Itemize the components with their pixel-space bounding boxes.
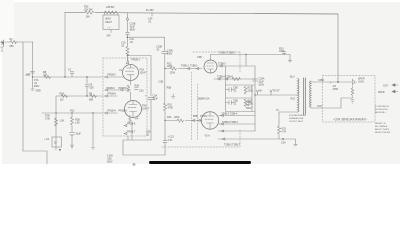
svg-text:OUTPUT JACK: OUTPUT JACK <box>289 120 304 123</box>
jack shunt resistor R15 <box>351 86 354 98</box>
svg-text:525V: 525V <box>259 84 265 87</box>
capacitor C2 (above row A at x=72) <box>70 72 74 78</box>
svg-text:SPKR: SPKR <box>378 91 385 94</box>
svg-text:C2A: C2A <box>281 142 286 145</box>
resistor R4 (row B right) <box>90 95 97 98</box>
svg-text:C2B: C2B <box>159 81 164 84</box>
svg-text:1.5K: 1.5K <box>75 122 80 125</box>
wire V2B plate y=115.5 <box>219 115 255 117</box>
svg-text:PR1B-3: PR1B-3 <box>107 87 116 90</box>
node plate V1A <box>127 55 128 56</box>
pin arrow row A into box <box>105 76 124 78</box>
svg-text:PR1B-2: PR1B-2 <box>108 74 117 77</box>
capacitor C5 (x=127.5) <box>126 32 130 44</box>
capacitor C7 (x=164.5) <box>162 51 168 53</box>
svg-text:RESIST. OF: RESIST. OF <box>375 123 387 125</box>
svg-text:R13: R13 <box>291 98 296 101</box>
wire vert x=151 <box>150 56 152 141</box>
resistor R7 (rail series 85-95) <box>85 11 94 14</box>
svg-text:4.7K: 4.7K <box>168 139 173 142</box>
connector arrow B+ (x=257.5) <box>256 90 258 95</box>
svg-text:T25B-2 T25B-7: T25B-2 T25B-7 <box>224 144 240 147</box>
wire vert x=246 <box>245 55 247 67</box>
wire V2A lower y=79 <box>214 78 255 80</box>
arrow connector OUTPUT <box>392 84 398 87</box>
svg-text:GRD: GRD <box>36 90 42 93</box>
svg-text:24V: 24V <box>107 35 112 38</box>
svg-text:PR2B-7: PR2B-7 <box>127 131 136 134</box>
wire vertical x=93 row C down <box>92 113 94 147</box>
resistor R2 (row A series) <box>44 76 51 79</box>
svg-text:1M: 1M <box>60 99 63 102</box>
ground (jack) <box>351 100 354 103</box>
capacitor C8 (x=165 low) <box>163 121 167 156</box>
wire vertical drop x=23 (ground bus) <box>22 42 24 151</box>
wire vert x=255 <box>254 66 256 131</box>
capacitor C11 <box>226 101 235 105</box>
svg-text:600V: 600V <box>167 53 173 56</box>
svg-text:200V: 200V <box>34 85 40 88</box>
wire secondary top y=82 <box>311 81 352 83</box>
svg-text:1.5K: 1.5K <box>60 120 65 123</box>
pin arrows into box2 y=120.5 <box>192 119 200 121</box>
svg-text:B5B: B5B <box>193 115 198 118</box>
svg-text:25uF: 25uF <box>76 133 82 136</box>
cathode RC V1B <box>129 116 138 141</box>
coupling chain x=164.5 <box>164 37 166 103</box>
svg-text:C25B: C25B <box>318 79 324 82</box>
tube V2B triode <box>201 112 218 129</box>
svg-text:.005: .005 <box>89 87 94 90</box>
connector arrow OT (x=271) <box>270 90 272 95</box>
svg-text:A25 5W: A25 5W <box>106 6 115 9</box>
capacitor C1 on input drop <box>31 71 35 73</box>
wire/cap divider x=87 rows A-B <box>85 77 89 96</box>
pin arrow y=66 <box>220 65 223 67</box>
dashed box V1 socket <box>103 58 147 136</box>
svg-text:B+ 360: B+ 360 <box>146 9 154 12</box>
node x=128 upper junction <box>127 36 129 38</box>
wire vertical drop x=32.5 <box>32 42 34 77</box>
svg-text:T25B-3: T25B-3 <box>218 63 226 66</box>
svg-text:ALL ITEMS A: ALL ITEMS A <box>375 125 388 128</box>
PI ladder network <box>226 85 256 112</box>
tube V1B triode <box>125 101 142 118</box>
resistor R11 grid stopper 2 <box>177 119 184 122</box>
ground (input network) <box>31 77 34 91</box>
connector arrow (x=127.5 up) <box>126 13 129 33</box>
svg-text:ABOUT THIS N: ABOUT THIS N <box>375 128 390 131</box>
pin arrows V2B right <box>221 114 224 132</box>
svg-text:C7B: C7B <box>45 118 50 121</box>
svg-text:10K: 10K <box>43 74 48 77</box>
svg-text:SPEAKER USE: SPEAKER USE <box>289 117 304 120</box>
cathode RC V1A <box>127 81 138 100</box>
black censor bar <box>151 161 250 164</box>
rectifier box BR1 <box>103 15 119 30</box>
svg-text:T25B-1: T25B-1 <box>190 65 198 68</box>
svg-text:P25B-1: P25B-1 <box>181 65 189 68</box>
svg-text:OHM: OHM <box>333 88 339 91</box>
svg-text:R5A: R5A <box>60 93 65 96</box>
svg-text:R5B: R5B <box>167 87 172 90</box>
svg-text:12AX7: 12AX7 <box>140 72 148 75</box>
wire grid V2B y=120.5 <box>165 120 202 122</box>
svg-text:R16: R16 <box>167 116 172 119</box>
wire OT primary bottom y=112 <box>279 111 297 113</box>
wire V2B y=131 <box>218 130 255 132</box>
svg-text:T25B-2 T25B-3: T25B-2 T25B-3 <box>222 121 238 124</box>
svg-text:PR2B-5: PR2B-5 <box>127 123 136 126</box>
svg-text:+ C3: + C3 <box>44 138 50 141</box>
svg-text:B5B/P1.5A: B5B/P1.5A <box>198 98 210 101</box>
svg-text:T25B-4 T25B-6: T25B-4 T25B-6 <box>217 76 233 79</box>
svg-text:OUT: OUT <box>383 85 389 88</box>
wire secondary bottom y=108 <box>311 107 341 109</box>
wire input to grid network <box>5 41 34 43</box>
wire vertical x=65 from B+ rail <box>64 13 66 78</box>
svg-text:IN USE WITH: IN USE WITH <box>375 109 388 111</box>
ground (x=173 small) <box>172 94 175 98</box>
resistor R5 (cathode, x=56) <box>55 118 58 126</box>
svg-text:450V: 450V <box>130 29 136 32</box>
wire y=37.2 to coupling cap <box>128 36 165 38</box>
ground (x=295.5) <box>294 144 297 146</box>
svg-text:68K: 68K <box>89 99 94 102</box>
node B+ OT <box>254 94 255 95</box>
wire V2B y=124 <box>219 123 255 125</box>
capacitor C3 box (x=52-61) <box>52 137 62 147</box>
capacitor C5A electrolytic on x=151 <box>148 97 155 102</box>
svg-text:100K: 100K <box>279 50 285 53</box>
wire B+ rail y=12.5 <box>65 12 338 14</box>
wire grid V2A y=68.5 <box>165 68 202 70</box>
svg-text:220K: 220K <box>174 116 180 119</box>
svg-text:-ON BREAKAWAY-: -ON BREAKAWAY- <box>333 117 368 122</box>
wire V2A right y=66 <box>217 65 255 67</box>
svg-text:R3A: R3A <box>135 85 140 88</box>
resistor R8 plate V1A <box>126 44 129 56</box>
resistor R14 NFB (x=279) <box>278 112 281 139</box>
resistor R12 <box>244 87 247 94</box>
capacitor C10 <box>226 88 235 92</box>
node cathode ground <box>59 149 61 151</box>
arrow connector GND <box>392 90 398 93</box>
svg-text:ANY AT ALL: ANY AT ALL <box>375 111 387 114</box>
svg-text:4.7K: 4.7K <box>282 131 287 134</box>
wire vertical x=56 rows B-C <box>55 96 57 150</box>
resistor R10 (x=165 mid) <box>164 103 167 121</box>
wire plate V2A y=54.5 <box>211 55 291 61</box>
svg-text:IF GROUND IS: IF GROUND IS <box>375 106 389 108</box>
svg-text:JACK: JACK <box>358 81 364 84</box>
node NFB junction <box>282 138 284 140</box>
wire ground bus bottom <box>23 151 47 164</box>
svg-text:220K: 220K <box>248 90 254 93</box>
ground (cathode x=72) <box>70 145 74 148</box>
svg-text:PR1B-1: PR1B-1 <box>132 59 141 62</box>
node grid wire V2A <box>164 68 165 69</box>
pin arrows into box2 y=68.5 <box>187 67 199 69</box>
wire V2B cathode y=139 <box>218 139 296 144</box>
svg-text:68K: 68K <box>10 45 15 48</box>
svg-text:470K: 470K <box>168 107 174 110</box>
wire row C y=113 <box>42 112 103 114</box>
pin arrow row C into box <box>105 112 118 114</box>
svg-text:20uF: 20uF <box>153 98 159 101</box>
dashed breakaway box <box>323 75 376 122</box>
svg-text:®: ® <box>133 162 136 167</box>
resistor R7B (rail series above box) <box>105 11 117 14</box>
resistor R13 <box>244 99 247 106</box>
svg-text:PR1B-6: PR1B-6 <box>119 110 128 113</box>
svg-text:V2-A: V2-A <box>205 135 211 138</box>
svg-text:PR1B-5: PR1B-5 <box>119 87 128 90</box>
svg-text:600V: 600V <box>107 161 113 164</box>
wire vert x=338 (B+ to output) <box>337 14 339 82</box>
svg-text:BLU: BLU <box>290 76 295 79</box>
svg-text:600V: 600V <box>246 107 252 110</box>
transformer T1 output <box>298 78 312 115</box>
wire row B y=96 <box>56 95 103 97</box>
svg-text:PR1B-8: PR1B-8 <box>108 93 117 96</box>
wire B+ to OT y=95 <box>255 94 297 96</box>
resistor R19 (y=79) <box>232 78 240 81</box>
svg-text:PR1B-4: PR1B-4 <box>108 110 117 113</box>
svg-text:P1.5A: P1.5A <box>200 115 207 118</box>
wire jack ground loop <box>341 98 353 108</box>
text labels layer <box>1 6 392 164</box>
stub x=152 on rail <box>151 13 153 17</box>
svg-text:TO OT: TO OT <box>273 90 281 93</box>
svg-text:FOR GROUNDED: FOR GROUNDED <box>289 115 306 117</box>
ground (x=290) <box>288 60 291 62</box>
svg-text:10K 5W: 10K 5W <box>84 9 93 12</box>
wire bottom bus y=140 <box>123 140 166 155</box>
capacitor C4 (x=72) <box>69 133 74 145</box>
svg-text:1/2W: 1/2W <box>170 72 176 75</box>
svg-text:12AX7: 12AX7 <box>142 108 150 111</box>
svg-text:R15: R15 <box>318 105 323 108</box>
paper background <box>0 0 400 168</box>
svg-text:C5B: C5B <box>197 56 202 59</box>
svg-text:T25B-2 T25B-4: T25B-2 T25B-4 <box>222 112 238 115</box>
input jack J1 <box>1 40 4 46</box>
svg-text:T25B-1 T25B-2: T25B-1 T25B-2 <box>219 52 235 55</box>
node output junction <box>337 81 339 83</box>
dashed box V2 socket <box>162 52 240 147</box>
svg-text:R10: R10 <box>70 110 75 113</box>
output jack J2 <box>353 79 357 85</box>
pin arrow y=139 <box>222 138 225 140</box>
resistor R9 grid stopper <box>170 67 177 70</box>
pin arrows bottom of box V1 <box>124 124 128 140</box>
node plate junction x=246 <box>245 54 246 55</box>
svg-text:RECT: RECT <box>106 21 113 24</box>
pin arrow row B into box <box>105 95 118 97</box>
resistor R3 (row B) <box>61 95 68 98</box>
tube V1A triode <box>123 65 139 81</box>
svg-text:C3A: C3A <box>139 90 144 93</box>
node junctions rows <box>55 112 56 113</box>
pin arrows y=79 <box>218 78 228 80</box>
svg-text:RESET THE SW: RESET THE SW <box>375 132 391 134</box>
resistor R1 68k (input series) <box>10 41 17 44</box>
node A row-A junction <box>32 76 33 77</box>
capacitor C12 filter on x=255 <box>252 79 258 81</box>
ground (x=93) <box>91 148 94 150</box>
wire row A y=77 <box>33 76 104 78</box>
inner pin row y=90 <box>105 89 131 91</box>
svg-text:220K: 220K <box>167 65 173 68</box>
resistor R6 chain x=72 below row C <box>71 113 74 132</box>
tube V2A triode <box>204 60 217 73</box>
node grid wire V2B <box>164 120 165 121</box>
capacitor C9 (x=284 on screen wire) <box>283 52 286 55</box>
wire vert x=225.5 PI feed <box>225 66 227 85</box>
pin arrow PR1B-1 <box>126 58 128 64</box>
wire y=55.5 to x=151 <box>128 56 152 59</box>
